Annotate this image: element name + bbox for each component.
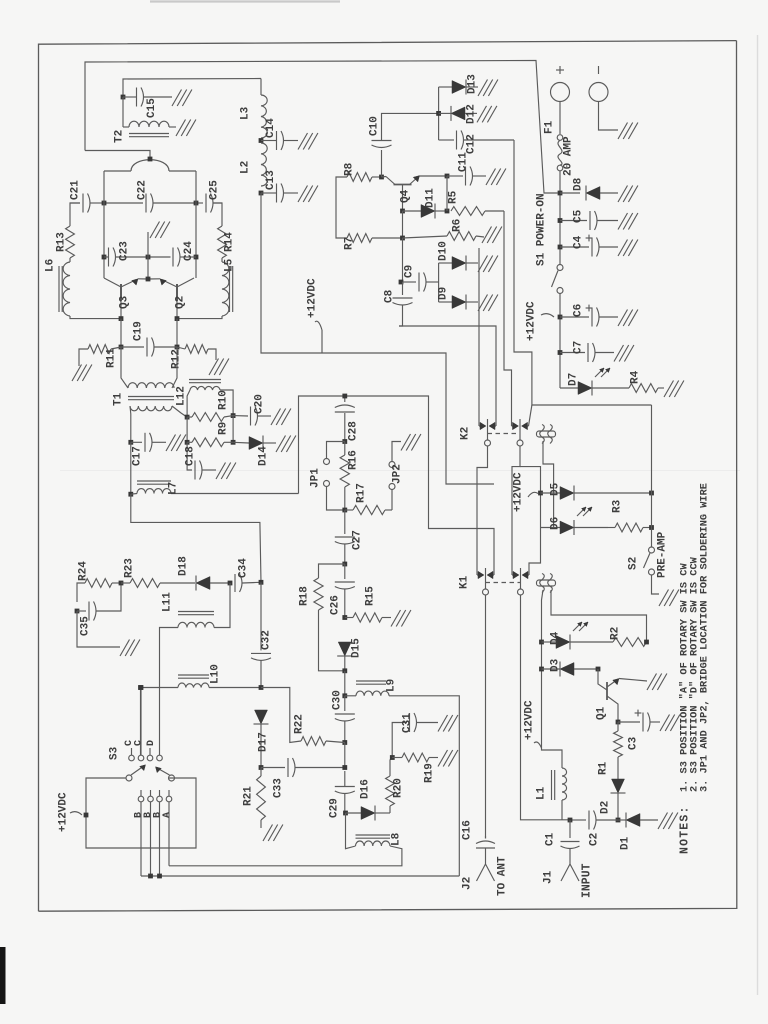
node C1 node	[568, 818, 573, 823]
ground	[150, 222, 170, 239]
capacitor C18	[187, 442, 216, 479]
svg-text:R1: R1	[598, 761, 610, 775]
fuse F1	[557, 135, 563, 193]
ground	[298, 133, 318, 150]
ground	[438, 715, 458, 732]
capacitor C9	[403, 273, 439, 292]
svg-text:R19: R19	[424, 763, 436, 783]
node D11 anode node	[400, 209, 405, 214]
svg-text:D5: D5	[550, 482, 562, 496]
node L10-S3 join	[139, 685, 144, 690]
svg-text:D1: D1	[620, 836, 632, 850]
svg-text:R2: R2	[610, 627, 622, 640]
diode D3	[542, 662, 599, 677]
diode D17	[254, 710, 269, 768]
svg-text:R6: R6	[452, 219, 464, 232]
capacitor C23	[104, 248, 148, 267]
wire	[140, 688, 142, 756]
svg-text:C14: C14	[265, 118, 277, 138]
svg-text:R4: R4	[630, 370, 642, 384]
wire	[176, 319, 178, 347]
svg-text:C4: C4	[573, 235, 585, 249]
switch S3 wiper B	[156, 767, 175, 781]
node C28-R16 node	[342, 439, 347, 444]
svg-text:INPUT: INPUT	[581, 863, 594, 898]
resistor R5	[451, 207, 504, 216]
node L3-C14 node	[259, 138, 264, 143]
wire +12VDC hook L1	[534, 742, 542, 748]
svg-text:J1: J1	[543, 870, 555, 884]
resistor R17	[345, 505, 392, 514]
svg-text:Q2: Q2	[175, 296, 187, 309]
capacitor C11	[447, 167, 486, 186]
wire	[344, 743, 346, 768]
node C19 right	[175, 345, 180, 350]
diode D4 LED	[542, 622, 614, 650]
capacitor C1	[561, 820, 580, 856]
ground	[618, 240, 638, 257]
ground	[391, 610, 411, 627]
node rail C7	[558, 350, 563, 355]
node L10 right node	[259, 685, 264, 690]
scan artifact: top edge streak	[150, 0, 340, 2]
svg-text:C28: C28	[348, 421, 360, 441]
svg-text:F1: F1	[544, 120, 556, 134]
svg-text:C8: C8	[384, 289, 396, 303]
svg-text:+12VDC: +12VDC	[524, 700, 536, 740]
resistor R13	[66, 212, 75, 258]
svg-text:+12VDC: +12VDC	[58, 792, 70, 832]
capacitor C35	[77, 583, 121, 621]
svg-text:D7: D7	[568, 373, 580, 386]
ground	[120, 640, 140, 657]
ground	[438, 750, 458, 767]
capacitor C21	[70, 194, 104, 213]
svg-text:3. JP1 AND JP2, BRIDGE LOCATIO: 3. JP1 AND JP2, BRIDGE LOCATION FOR SOLD…	[699, 483, 711, 792]
switch S3 contacts upper	[129, 690, 163, 761]
svg-text:K1: K1	[459, 575, 471, 589]
wire	[85, 151, 150, 160]
inductor L9	[345, 681, 460, 876]
wire D5-D6 column	[529, 493, 541, 575]
node T2-C15 node	[121, 95, 126, 100]
inductor L11	[160, 583, 231, 755]
diode D14	[233, 436, 276, 451]
svg-text:C15: C15	[146, 98, 158, 118]
ground	[618, 123, 638, 140]
svg-text:L9: L9	[386, 679, 398, 692]
svg-text:D13: D13	[467, 74, 479, 94]
wire	[402, 211, 404, 238]
resistor R7	[336, 231, 402, 242]
svg-text:C21: C21	[70, 180, 82, 200]
wire bus B	[141, 875, 459, 877]
resistor R20	[386, 758, 395, 814]
ground	[482, 227, 502, 244]
node bus-left	[102, 201, 107, 206]
transistor Q1	[598, 669, 647, 722]
wire +12VDC hook	[70, 812, 82, 815]
svg-text:D12: D12	[466, 104, 478, 124]
terminal + positive	[551, 66, 570, 134]
ground	[477, 106, 497, 123]
wire K2 commons down	[477, 446, 541, 575]
svg-text:C10: C10	[369, 116, 381, 136]
inductor L12	[187, 380, 233, 418]
ground	[209, 359, 229, 376]
svg-text:D10: D10	[438, 241, 450, 261]
ground	[263, 825, 283, 842]
svg-text:D3: D3	[550, 658, 562, 672]
wire	[120, 319, 122, 347]
svg-text:C30: C30	[332, 690, 344, 710]
node C28 top	[342, 394, 347, 399]
ground	[664, 381, 684, 398]
ground	[659, 590, 679, 607]
svg-text:C12: C12	[466, 134, 478, 154]
capacitor C22	[104, 194, 196, 213]
border frame	[39, 41, 737, 912]
capacitor C17	[131, 433, 166, 452]
wire +12V rail	[559, 193, 561, 265]
resistor R15	[345, 613, 391, 622]
hairpin coupling loop	[104, 160, 196, 171]
node rail D8	[558, 191, 563, 196]
svg-text:D14: D14	[258, 446, 270, 466]
svg-text:C6: C6	[573, 304, 585, 317]
node R10 right	[231, 413, 236, 418]
svg-text:D6: D6	[550, 517, 562, 530]
wire	[147, 232, 149, 257]
wire output run to relay	[261, 193, 494, 484]
wire box to C28 node	[299, 396, 495, 575]
diode D11	[403, 204, 448, 219]
resistor R1	[614, 722, 623, 779]
svg-text:Q1: Q1	[596, 706, 608, 720]
svg-text:C32: C32	[261, 630, 273, 650]
svg-text:L1: L1	[536, 786, 548, 800]
diode D16	[346, 806, 391, 821]
diode D8	[560, 186, 618, 201]
resistor R2	[613, 638, 647, 647]
node Q1 base node	[596, 667, 601, 672]
capacitor C4 polarized	[560, 235, 618, 257]
node L9 node	[342, 693, 347, 698]
diode D12	[439, 106, 477, 121]
ground	[486, 169, 506, 186]
transformer T1	[121, 347, 187, 442]
capacitor C25	[196, 194, 222, 213]
inductor L10	[141, 675, 262, 688]
svg-text:D18: D18	[178, 556, 190, 576]
transistor Q4	[382, 176, 448, 211]
wire	[186, 417, 188, 442]
ground	[401, 434, 421, 451]
resistor R9	[187, 438, 233, 447]
transistor Q3	[104, 278, 148, 319]
wire	[402, 238, 404, 282]
diode D9	[439, 295, 478, 310]
node c23 row right	[194, 255, 199, 260]
svg-text:+12VDC: +12VDC	[526, 301, 538, 341]
capacitor C20	[233, 407, 271, 426]
relay K1	[477, 568, 529, 595]
svg-text:R20: R20	[393, 778, 405, 798]
node T1 sec left	[128, 440, 133, 445]
ground	[478, 80, 498, 97]
node R2 right	[644, 640, 649, 645]
wire	[214, 203, 223, 212]
svg-text:R15: R15	[365, 586, 377, 606]
node C11 node	[445, 174, 450, 179]
diode D1	[618, 813, 658, 828]
svg-text:C31: C31	[402, 713, 414, 733]
ground	[72, 365, 92, 382]
svg-text:C5: C5	[573, 209, 585, 223]
wire K1 commons down	[486, 596, 571, 839]
svg-text:L6: L6	[45, 259, 57, 272]
inductor L5	[222, 258, 233, 316]
inductor L3	[261, 95, 267, 138]
node bus dot 1	[148, 874, 153, 879]
node center node	[146, 255, 151, 260]
svg-text:L2: L2	[240, 161, 252, 174]
resistor R6	[403, 232, 485, 241]
svg-text:L11: L11	[162, 592, 174, 612]
svg-text:C24: C24	[183, 241, 195, 261]
diode D5	[541, 486, 652, 501]
node rail C5	[558, 218, 563, 223]
svg-text:JP2: JP2	[392, 464, 404, 484]
svg-text:TO ANT: TO ANT	[497, 856, 509, 896]
svg-text:PRE-AMP: PRE-AMP	[657, 531, 669, 578]
jumper JP2	[389, 442, 401, 511]
capacitor C32	[251, 582, 271, 687]
svg-text:R14: R14	[224, 232, 236, 252]
svg-text:C7: C7	[573, 341, 585, 354]
svg-text:L8: L8	[391, 832, 403, 846]
capacitor C14	[261, 131, 298, 150]
resistor R8	[336, 173, 380, 184]
ground	[172, 90, 192, 107]
node C29 top	[342, 765, 347, 770]
svg-text:C20: C20	[254, 394, 266, 414]
diode D15	[337, 642, 352, 671]
resistor R22	[261, 688, 345, 746]
node R9 right	[231, 440, 236, 445]
capacitor C29	[335, 771, 355, 813]
switch S3 wiper A	[126, 765, 146, 781]
node D4 node	[539, 640, 544, 645]
svg-text:C1: C1	[545, 832, 557, 846]
svg-text:R8: R8	[344, 162, 356, 176]
ground	[618, 213, 638, 230]
svg-text:R21: R21	[243, 786, 255, 806]
node R23 left	[119, 581, 124, 586]
svg-text:D4: D4	[550, 631, 562, 645]
svg-text:R18: R18	[299, 586, 311, 606]
svg-text:NOTES:: NOTES:	[679, 805, 692, 854]
capacitor C19	[121, 338, 177, 357]
svg-text:R13: R13	[56, 232, 68, 252]
node S3 +12 node	[84, 813, 89, 818]
svg-text:R9: R9	[218, 422, 230, 435]
node D5 right	[649, 491, 654, 496]
svg-text:S1 POWER-ON: S1 POWER-ON	[536, 193, 548, 266]
capacitor C13	[261, 184, 298, 203]
wire	[85, 61, 558, 194]
ground	[276, 436, 296, 453]
svg-text:D8: D8	[573, 177, 585, 191]
capacitor C7	[560, 343, 614, 362]
transformer T2	[123, 97, 176, 137]
svg-text:L7: L7	[168, 482, 180, 495]
inductor L8	[169, 835, 402, 866]
node C3 node	[616, 720, 621, 725]
resistor R24	[77, 579, 121, 602]
capacitor C27	[335, 510, 355, 564]
scan artifact: faint page shadow right edge	[757, 35, 759, 995]
svg-text:D2: D2	[600, 801, 612, 814]
node C10 node	[379, 175, 384, 180]
wire preamp column	[651, 405, 653, 547]
node R22 node	[342, 740, 347, 745]
node emitter center node	[146, 277, 151, 282]
svg-text:L10: L10	[210, 664, 222, 684]
svg-text:R22: R22	[294, 714, 306, 734]
svg-text:R5: R5	[448, 190, 460, 204]
resistor R12	[177, 345, 216, 360]
node L2-C13 node	[259, 191, 264, 196]
ground	[298, 186, 318, 203]
resistor R21	[257, 768, 266, 829]
svg-text:C13: C13	[265, 170, 277, 190]
ground	[618, 310, 638, 327]
capacitor C3	[618, 710, 660, 732]
capacitor C26	[335, 564, 355, 618]
svg-text:C9: C9	[404, 265, 416, 278]
node D1 node	[616, 818, 621, 823]
svg-text:C29: C29	[329, 798, 341, 818]
wire +12VDC hook rail	[541, 314, 554, 317]
jack J1	[561, 856, 579, 881]
ground	[176, 120, 196, 137]
node R10 left	[185, 415, 190, 420]
node D3 node	[539, 667, 544, 672]
diode D7 LED	[560, 368, 629, 396]
node C27 bottom	[342, 562, 347, 567]
node L7 node	[128, 492, 133, 497]
ground	[614, 345, 634, 362]
svg-text:Q3: Q3	[119, 295, 131, 309]
node D12 node	[436, 111, 441, 116]
switch S1	[552, 265, 564, 389]
svg-text:R23: R23	[124, 558, 136, 578]
capacitor C28	[335, 405, 355, 442]
ground	[478, 256, 498, 273]
wire	[346, 813, 356, 849]
node R17 left	[342, 508, 347, 513]
svg-text:S3: S3	[109, 746, 121, 760]
node bus-right	[194, 201, 199, 206]
svg-text:R24: R24	[78, 561, 90, 581]
wire	[123, 79, 261, 98]
node R19 node	[390, 755, 395, 760]
resistor R19	[392, 753, 438, 762]
scan artifact: left edge black bar	[0, 947, 6, 1004]
svg-text:L3: L3	[240, 106, 252, 120]
jumper JP1	[324, 442, 345, 511]
inductor L6	[59, 258, 70, 316]
node bus dot 2	[157, 874, 162, 879]
node Q2 base node	[175, 316, 180, 321]
svg-text:J2: J2	[462, 877, 474, 890]
capacitor C33	[261, 758, 345, 777]
node c23 row left	[102, 255, 107, 260]
svg-text:D9: D9	[438, 287, 450, 300]
resistor R23	[121, 579, 160, 588]
resistor R16	[340, 442, 349, 511]
node R9 left	[185, 440, 190, 445]
svg-text:L12: L12	[176, 386, 188, 406]
node C19 left	[119, 345, 124, 350]
jumper bridge JP1-K1	[537, 574, 647, 763]
inductor L2	[261, 143, 267, 186]
svg-text:T1: T1	[113, 392, 125, 406]
node C34 left	[228, 581, 233, 586]
wire	[177, 316, 222, 319]
node C35 left	[75, 609, 80, 614]
capacitor C30	[335, 696, 355, 743]
svg-text:C25: C25	[209, 180, 221, 200]
wire S3 common box	[86, 778, 196, 848]
node Q3 base node	[119, 316, 124, 321]
node R15 node	[342, 615, 347, 620]
ground	[658, 813, 678, 830]
capacitor C15	[123, 88, 172, 107]
svg-text:C26: C26	[330, 595, 342, 615]
node D5 node	[538, 491, 543, 496]
capacitor C6 polarized	[560, 305, 618, 327]
svg-text:C3: C3	[628, 736, 640, 750]
ground	[216, 463, 236, 480]
svg-text:D11: D11	[425, 188, 437, 208]
diode D6 LED	[541, 507, 609, 535]
wire	[344, 671, 346, 696]
wire	[335, 184, 337, 231]
svg-text:R7: R7	[344, 237, 356, 250]
svg-text:D15: D15	[351, 638, 363, 658]
jack J2	[477, 864, 495, 881]
node L10 left node	[138, 685, 143, 690]
node R3 right	[649, 525, 654, 530]
node R7-R6 node	[400, 236, 405, 241]
svg-text:D16: D16	[360, 779, 372, 799]
ground	[660, 715, 680, 732]
svg-text:C22: C22	[137, 180, 149, 200]
relay K2	[479, 419, 529, 446]
node D16 left	[343, 811, 348, 816]
svg-text:JP1: JP1	[310, 468, 322, 488]
capacitor C10	[372, 113, 439, 177]
svg-text:C16: C16	[462, 820, 474, 840]
node rail C6	[558, 315, 563, 320]
capacitor C8	[393, 282, 413, 326]
switch S3 contacts lower	[138, 790, 172, 876]
wire +12VDC tap	[315, 321, 322, 353]
capacitor C24	[148, 248, 196, 267]
svg-text:D: D	[146, 740, 157, 746]
